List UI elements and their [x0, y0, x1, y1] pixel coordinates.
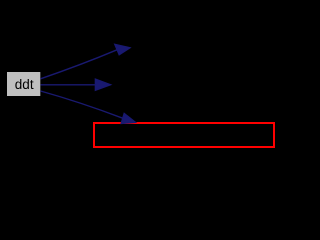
red box (highlighted node border)	[94, 123, 274, 147]
edge to node 3 (middle arrow)	[41, 79, 112, 91]
svg-text:ddt: ddt	[15, 77, 34, 92]
node ddt (grey box)	[7, 72, 40, 96]
edge to node 2 (top arrow)	[41, 44, 131, 79]
edge to node 4 (bottom arrow)	[41, 91, 136, 124]
